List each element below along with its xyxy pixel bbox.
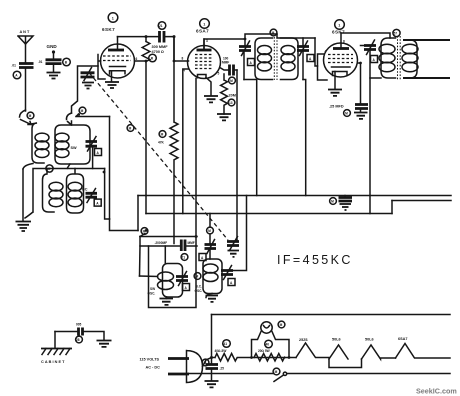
heater 25Z6	[296, 338, 329, 358]
svg-text:M: M	[161, 133, 164, 137]
part label plug	[202, 359, 209, 366]
svg-text:M: M	[275, 370, 278, 374]
coil L1 SW antenna primary	[31, 123, 49, 163]
svg-text:41: 41	[224, 342, 228, 346]
ground under V3	[328, 90, 342, 96]
svg-text:8: 8	[182, 57, 184, 61]
pilot lamp PL bypass	[252, 322, 290, 358]
svg-text:300 MMF: 300 MMF	[152, 45, 169, 49]
coil L4 BC secondary	[67, 169, 88, 214]
IF transformer T2 secondary	[402, 40, 418, 78]
svg-text:AC - DC: AC - DC	[146, 366, 161, 370]
capacitor C4 100MMF	[222, 57, 237, 76]
tube V3 6SK7 envelope	[324, 43, 358, 77]
svg-text:.25: .25	[220, 367, 225, 371]
svg-text:40: 40	[266, 343, 270, 347]
part label A	[13, 71, 21, 79]
svg-text:.25 MFD: .25 MFD	[329, 105, 344, 109]
svg-text:M: M	[29, 114, 32, 118]
trimmer CT5 osc	[205, 214, 217, 260]
svg-text:M: M	[230, 79, 233, 83]
svg-text:M: M	[208, 229, 211, 233]
ground big left	[16, 222, 32, 232]
part label C8	[76, 336, 83, 343]
tube V1 plate	[108, 49, 124, 52]
svg-text:SW: SW	[71, 146, 78, 150]
variable capacitor VC3 sw osc	[176, 272, 188, 286]
node M5 T1 top	[277, 34, 315, 38]
capacitor C1 antenna .01	[12, 64, 34, 112]
wire to V2 grid	[174, 37, 189, 61]
tube V3 grids	[328, 55, 353, 63]
wire V2 cathode down	[149, 78, 197, 307]
capacitor C5 .25MFD	[329, 104, 368, 112]
IF transformer T2 core	[398, 36, 401, 80]
wire plug node vertical	[211, 315, 213, 365]
svg-text:50L6: 50L6	[365, 338, 374, 342]
node M1 antenna switch	[27, 112, 34, 119]
switch S2 band	[66, 113, 71, 125]
ground under R2	[217, 114, 231, 120]
wire V2 osc grid lead	[183, 69, 189, 214]
svg-text:57: 57	[394, 32, 398, 36]
filament line	[289, 357, 296, 359]
ground symbol gnd	[47, 73, 61, 79]
svg-text:4700 Ω: 4700 Ω	[152, 50, 165, 54]
svg-text:25Z6: 25Z6	[299, 338, 308, 342]
svg-text:21: 21	[159, 24, 163, 28]
wire T1 primary bottom down	[244, 80, 257, 196]
svg-text:28: 28	[76, 338, 80, 342]
tube V1 cathode	[110, 71, 126, 74]
svg-text:B.C.: B.C.	[196, 285, 202, 289]
svg-text:5: 5	[218, 72, 220, 76]
ground under L6	[206, 294, 212, 298]
part box T1 right	[307, 55, 314, 62]
wire T1 secondary bottom down	[303, 80, 306, 196]
node M7	[194, 273, 201, 280]
svg-text:A N T: A N T	[20, 30, 30, 34]
tube V1 designator 1	[108, 13, 118, 23]
IF transformer T1 core	[274, 37, 277, 80]
svg-text:8: 8	[343, 40, 345, 44]
svg-text:M: M	[196, 275, 199, 279]
part box label VC2	[94, 199, 101, 206]
wire T2 primary bottom	[370, 77, 381, 79]
ground under V1	[105, 82, 119, 88]
part box VC4	[228, 279, 235, 286]
part label 21	[158, 22, 166, 30]
part label C7	[181, 254, 188, 261]
part label 41	[223, 340, 231, 348]
svg-text:GND: GND	[47, 44, 58, 49]
svg-text:M: M	[280, 323, 283, 327]
tube V2 plate	[197, 49, 212, 52]
tube V3 beam plate	[332, 66, 351, 68]
svg-text:71: 71	[182, 256, 186, 260]
part label 40	[265, 340, 273, 348]
tube V1 grids	[103, 56, 131, 61]
part label switch M	[273, 368, 280, 375]
wire SW bottoms to BC top	[23, 164, 33, 170]
bottom return line top	[212, 314, 451, 316]
heater 6SA7	[396, 337, 451, 358]
cabinet chassis bar	[41, 332, 72, 365]
part box T2	[371, 56, 378, 63]
trimmer CT6 with ground	[227, 237, 239, 257]
ground under C5	[354, 113, 368, 119]
svg-text:13: 13	[229, 101, 233, 105]
resistor R3 47K	[170, 37, 178, 244]
ground under L5	[160, 299, 174, 305]
tube V2 cathode	[198, 75, 207, 78]
svg-text:50L6: 50L6	[332, 338, 341, 342]
resistor R1 4700 ohm	[142, 37, 150, 62]
heater 50L6 second	[362, 338, 396, 360]
part label B	[63, 58, 71, 66]
bus line 2b	[392, 200, 451, 202]
node M4 osc switch	[141, 228, 148, 235]
ground right of C8	[97, 341, 112, 347]
ground under V2	[204, 96, 218, 102]
wire T1 sec to V3 grid	[315, 38, 318, 66]
tube V3 designator 1	[335, 20, 345, 30]
svg-text:1: 1	[203, 23, 205, 27]
heater jog	[329, 359, 362, 368]
wire T2 output top	[404, 39, 449, 41]
svg-text:1: 1	[338, 24, 340, 28]
wire V1 plate to node	[118, 36, 147, 38]
switch S3 osc	[140, 196, 146, 237]
svg-text:M: M	[345, 112, 348, 116]
wire grid to band switch	[72, 66, 99, 113]
capacitor C3 300MMF	[146, 31, 174, 43]
wire plug to node	[203, 358, 212, 367]
wire V3 plate to T2	[341, 33, 390, 38]
coil L5 SW oscillator	[148, 246, 183, 297]
wire C4 right down	[236, 70, 238, 241]
wire V3 screen right	[358, 63, 361, 104]
capacitor C2 gnd .01	[38, 60, 62, 72]
svg-text:MMF: MMF	[188, 241, 195, 245]
svg-text:47K: 47K	[158, 141, 165, 145]
resistor R2 20M	[221, 74, 228, 114]
heater 50L6 first	[329, 338, 348, 360]
wire node R1 bottom down	[145, 61, 147, 196]
antenna ANT	[18, 30, 33, 63]
ground under CT1	[82, 83, 94, 89]
tube V3 plate	[333, 47, 349, 50]
svg-text:.01: .01	[12, 64, 17, 68]
tube V1 beam plate	[110, 66, 126, 68]
svg-text:115 VOLTS: 115 VOLTS	[140, 358, 160, 362]
gang line dashed	[89, 73, 228, 241]
IF transformer T1 primary	[255, 38, 273, 80]
wire V2 pin5 right	[220, 68, 229, 71]
AC plug P1	[168, 351, 203, 383]
cabinet capacitor C8 005	[55, 323, 104, 340]
tube V2 6SA7 envelope	[188, 46, 221, 79]
bus right jog	[391, 201, 393, 214]
capacitor C9 .25 line	[206, 365, 225, 381]
svg-text:M: M	[272, 31, 275, 35]
switch S1 antenna wire	[20, 110, 32, 125]
switch S4 power	[274, 372, 287, 381]
bus B minus line 1	[138, 195, 451, 197]
tube V3 cathode	[333, 72, 348, 76]
node M on coil link	[46, 165, 53, 172]
capacitor C6 on bus with ground	[330, 196, 352, 211]
wire V2 g to ground	[206, 78, 211, 96]
svg-text:6SA7: 6SA7	[196, 29, 209, 34]
node M6	[207, 227, 214, 234]
svg-text:.01: .01	[38, 60, 43, 64]
part box VC3	[183, 284, 190, 291]
svg-text:6SK7: 6SK7	[102, 27, 115, 32]
node M2 band switch	[79, 107, 86, 114]
trimmer CT1 rf	[81, 68, 95, 81]
trimmer CT4 T2	[361, 40, 377, 214]
wire T2 output bottom	[404, 77, 449, 79]
svg-text:SW: SW	[150, 287, 155, 291]
svg-text:4: 4	[325, 50, 327, 54]
part box osc	[199, 254, 206, 261]
part label C5	[344, 110, 351, 117]
svg-text:BC: BC	[82, 188, 88, 192]
svg-text:M: M	[81, 109, 84, 113]
tube V2 grids	[195, 55, 213, 69]
tube V2 designator 1	[200, 19, 210, 29]
resistor R4 40ohm 5W	[212, 349, 252, 361]
wire band bus down	[109, 117, 111, 220]
svg-text:MMF: MMF	[222, 60, 229, 64]
variable capacitor VC4 bc osc	[221, 196, 247, 280]
trimmer CT2 T1 left	[239, 39, 251, 80]
variable capacitor VC2	[86, 169, 110, 220]
wire BC bottom to switch M4	[110, 219, 139, 231]
svg-text:IF=455KC: IF=455KC	[277, 253, 353, 267]
part label M below C4	[229, 77, 236, 84]
svg-text:20M: 20M	[229, 94, 236, 98]
part box T1 left	[248, 59, 255, 66]
part label under R2	[228, 99, 235, 106]
tube V3 grid rail	[318, 54, 328, 80]
svg-text:M: M	[331, 200, 334, 204]
wire BC top	[25, 164, 105, 218]
wire switch to L5	[140, 275, 158, 278]
svg-text:40Ω-5W: 40Ω-5W	[215, 349, 227, 353]
ground GND terminal	[47, 44, 58, 59]
coil L2 SW secondary	[55, 125, 90, 164]
wire V1 screen lead	[135, 60, 147, 62]
wire grid rail V1	[98, 55, 105, 80]
tube V1 6SK7 envelope	[101, 44, 135, 78]
svg-text:SeekIC.com: SeekIC.com	[416, 387, 457, 396]
svg-text:M: M	[129, 127, 132, 131]
part box label VC1	[95, 149, 102, 156]
part label pilot M	[278, 321, 285, 328]
bus line 2	[146, 213, 392, 215]
IF transformer T1 secondary	[281, 38, 299, 80]
part label R3	[159, 131, 166, 138]
svg-text:CABINET: CABINET	[41, 360, 66, 364]
svg-text:005: 005	[76, 323, 82, 327]
svg-text:OSC.: OSC.	[148, 292, 156, 296]
bus left jog	[137, 196, 139, 231]
coil L3 BC antenna primary	[43, 169, 64, 213]
ground under C9	[205, 381, 219, 387]
variable capacitor VC1	[86, 137, 98, 169]
svg-text:1: 1	[112, 17, 114, 21]
resistor R5 20ohm 5W	[254, 349, 285, 361]
trimmer CT3 T1 right	[297, 38, 309, 80]
part label R near R1 bottom	[149, 54, 157, 62]
IF transformer T2 primary	[379, 38, 396, 78]
svg-text:OSC.: OSC.	[195, 289, 203, 293]
capacitor C7 2000MF chain	[140, 240, 197, 252]
node M3 on gang	[127, 125, 134, 132]
node label T2 top	[393, 29, 400, 36]
bottom line with switch	[189, 373, 274, 375]
svg-text:.2000MF: .2000MF	[155, 241, 168, 245]
wire V2 plate to T1	[204, 34, 277, 50]
coil L6 BC oscillator	[195, 259, 223, 294]
svg-text:6SA7: 6SA7	[398, 337, 408, 341]
